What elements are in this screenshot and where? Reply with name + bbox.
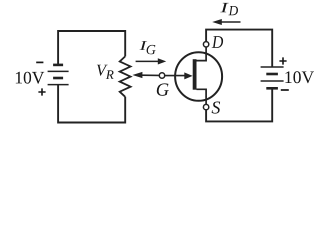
current arrow IG <box>136 58 167 64</box>
wire: drain lead (JFET to D node) <box>205 42 207 55</box>
label V2 value 10V <box>285 71 314 83</box>
wire: left loop bottom (battery positive terminal down and across to VR bottom) <box>58 85 125 123</box>
node G (open circle) <box>159 73 164 78</box>
label V1 minus <box>36 61 43 63</box>
transistor Q1 n-channel JFET <box>175 52 222 101</box>
label D <box>212 36 223 48</box>
battery V1 10V (left, negative plate up) <box>48 65 69 85</box>
node S (open circle) <box>203 104 208 109</box>
wire: right battery negative down and across to S node <box>206 88 272 121</box>
battery V2 10V (right, positive plate up) <box>261 67 284 88</box>
label V2 plus <box>279 57 286 64</box>
wire: drain node up and across to right battery positive <box>206 30 272 67</box>
label V2 minus <box>281 89 289 91</box>
label IG <box>140 41 148 50</box>
label ID <box>220 3 228 12</box>
node D (open circle) <box>203 42 208 47</box>
wire: left loop top (battery negative terminal up and across to VR top) <box>58 31 125 65</box>
label G <box>157 83 169 95</box>
wire: gate lead (G node to JFET gate arrow) <box>165 75 185 77</box>
label V1 plus <box>38 88 45 95</box>
current arrow ID <box>212 19 240 25</box>
label S <box>212 102 221 114</box>
label VR <box>97 65 108 76</box>
resistor VR zigzag (potentiometer body) <box>120 56 131 96</box>
potentiometer wiper arrow (points left into VR) <box>132 72 159 78</box>
label V1 value 10V <box>16 72 44 84</box>
wire: source lead (JFET to S node) <box>205 97 207 105</box>
